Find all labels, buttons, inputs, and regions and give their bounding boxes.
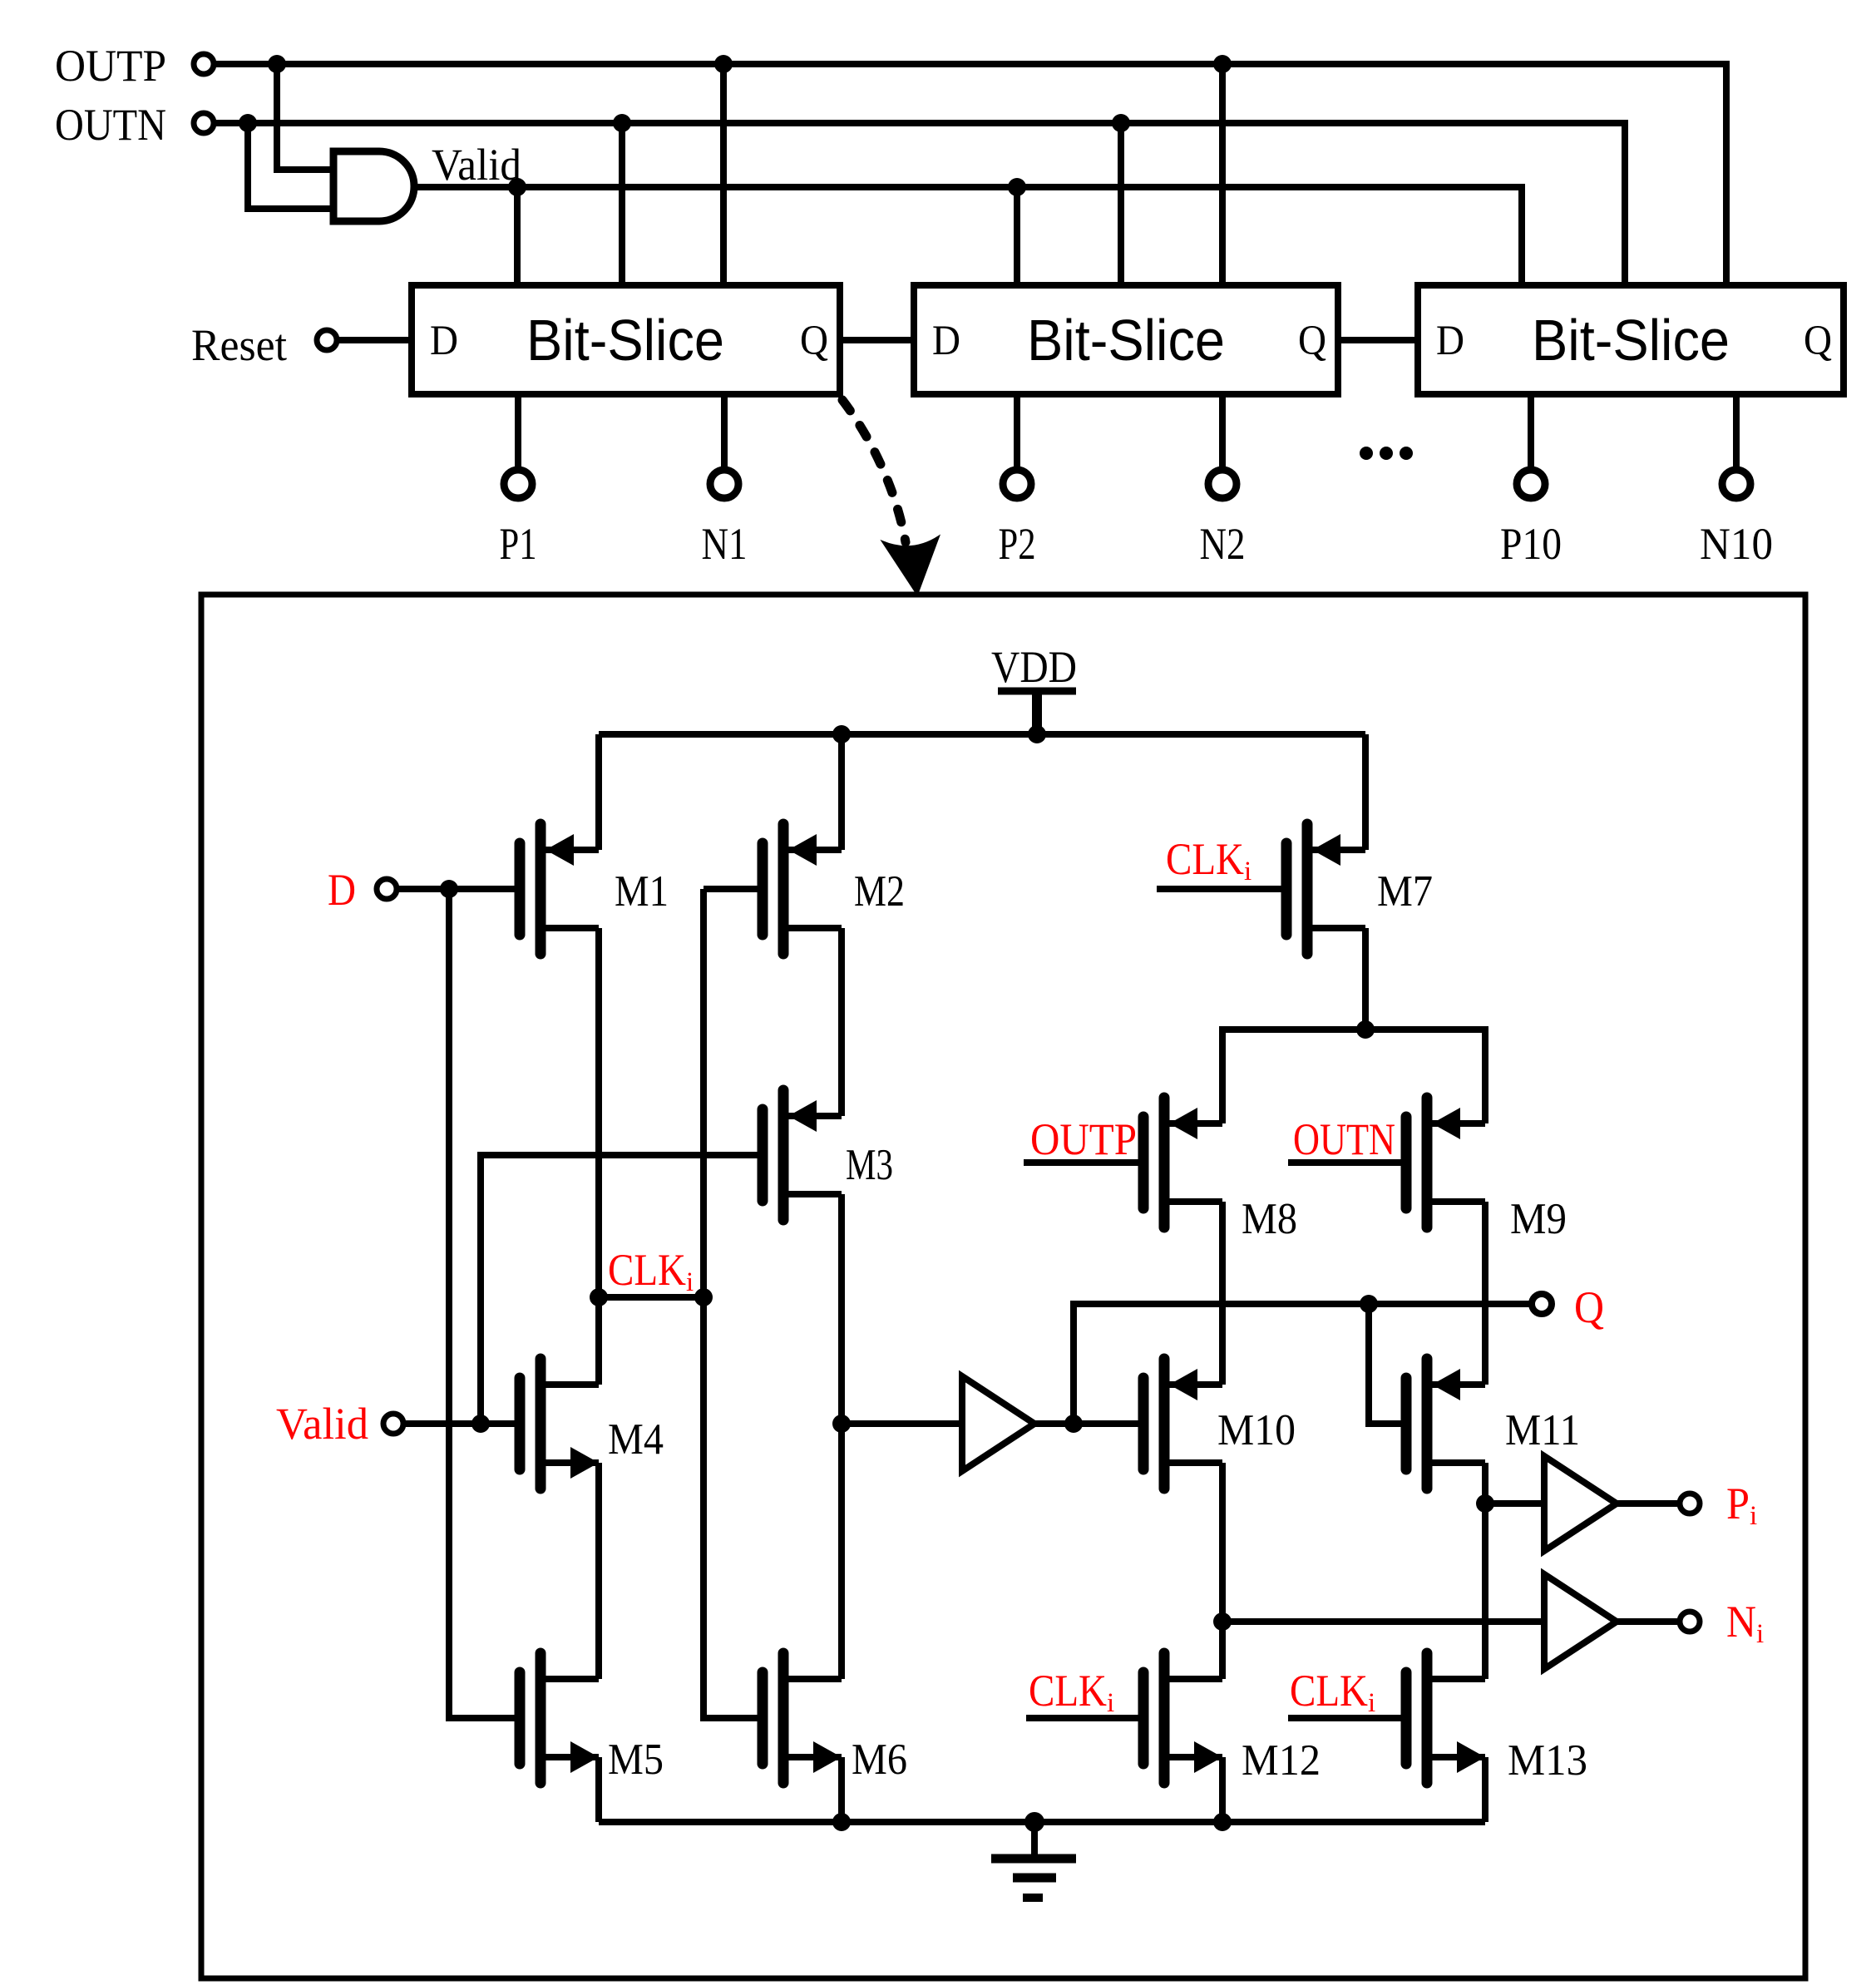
wire M5 source to ground (595, 1757, 602, 1822)
wire OUTN bus (215, 123, 1625, 285)
transistor M2 (763, 824, 842, 954)
svg-text:Ni: Ni (1726, 1597, 1764, 1649)
transistor M10 (1143, 1359, 1222, 1489)
wire M9 drain to M11 (1482, 1202, 1488, 1385)
transistor M8 (1143, 1098, 1222, 1227)
svg-text:CLKi: CLKi (1029, 1666, 1114, 1718)
junction buffer1 output (1064, 1415, 1083, 1433)
svg-text:CLKi: CLKi (1290, 1666, 1375, 1718)
svg-text:Valid: Valid (432, 140, 521, 190)
svg-text:Q: Q (1804, 318, 1832, 364)
junction gnd-sym (1024, 1812, 1044, 1832)
svg-text:CLKi: CLKi (608, 1245, 694, 1297)
wire M1 drain down (595, 928, 602, 1385)
wire slice2 Q to slice3 D (1338, 337, 1418, 343)
terminal P2 (1003, 470, 1031, 498)
wire Ni tap (1222, 1618, 1544, 1625)
svg-text:OUTP: OUTP (55, 41, 166, 91)
svg-text:M4: M4 (608, 1415, 664, 1464)
wire Valid drop slice2 (1014, 187, 1020, 285)
svg-text:M12: M12 (1242, 1736, 1321, 1785)
svg-text:Valid: Valid (276, 1399, 368, 1449)
svg-text:P1: P1 (500, 519, 537, 569)
wire Pi tap (1485, 1500, 1544, 1507)
svg-text:D: D (430, 318, 458, 364)
junction CLKi-M2M6 (694, 1288, 713, 1306)
junction VDD-stub (1028, 725, 1046, 743)
wire M12 source to ground (1219, 1757, 1226, 1822)
wire P10 stub (1528, 394, 1534, 467)
wire CLKi gate lead M12 (1026, 1715, 1143, 1721)
junction D (440, 880, 458, 898)
wire M10 source down (1219, 1463, 1226, 1679)
junction M7 node (1356, 1020, 1375, 1039)
wire CLKi gate lead M13 (1288, 1715, 1406, 1721)
dashed zoom arrow (842, 400, 906, 542)
wire CLKi gate lead M7 (1157, 886, 1286, 892)
svg-text:M2: M2 (854, 867, 905, 916)
svg-text:M5: M5 (608, 1736, 664, 1784)
svg-text:N1: N1 (702, 519, 748, 569)
svg-text:M6: M6 (852, 1736, 907, 1784)
wire OUTP bus (215, 64, 1726, 285)
svg-text:Bit-Slice: Bit-Slice (526, 308, 724, 373)
wire OUTN drop slice2 (1118, 123, 1124, 285)
wire M2 gate lead (703, 886, 763, 892)
terminal N2 (1208, 470, 1237, 498)
junction OUTP-slice1 (714, 55, 733, 73)
transistor M11 (1406, 1359, 1485, 1489)
terminal OUTN (194, 113, 214, 133)
svg-text:D: D (932, 318, 960, 364)
wire CLKi vertical M2-M6 (703, 889, 763, 1718)
ground symbol (991, 1822, 1076, 1898)
VDD rail symbol (998, 688, 1076, 695)
buffer U4 (1544, 1574, 1617, 1669)
svg-text:D: D (328, 865, 356, 915)
junction VDD-M2 (832, 725, 851, 743)
wire OUTN gate lead (1288, 1159, 1406, 1166)
wire D down to M5 gate (449, 889, 520, 1718)
transistor M9 (1406, 1098, 1485, 1227)
transistor M7 (1286, 824, 1365, 954)
junction Valid-slice2 (1008, 178, 1026, 196)
wire Q to M11 gate (1369, 1304, 1406, 1424)
wire N2 stub (1219, 394, 1226, 467)
wire Reset to slice1 D (338, 337, 412, 343)
wire OUTP to AND input (277, 64, 333, 170)
junction OUTN-slice2 (1112, 114, 1130, 132)
wire Valid drop slice1 (514, 187, 521, 285)
block Bit-Slice 1 (412, 285, 840, 394)
wire N1 stub (721, 394, 728, 467)
wire VDD stub (1032, 691, 1042, 734)
wire M7 source up (1362, 734, 1369, 850)
svg-text:VDD: VDD (991, 642, 1077, 692)
junction CLKi-M1M4 (590, 1288, 608, 1306)
svg-text:Q: Q (1574, 1282, 1604, 1332)
terminal N10 (1722, 470, 1750, 498)
wire M3 gate lead (481, 1155, 763, 1424)
wire M2 source up (838, 734, 845, 850)
terminal P10 (1517, 470, 1545, 498)
terminal OUTP (194, 54, 214, 74)
transistor M3 (763, 1090, 842, 1220)
svg-text:Pi: Pi (1726, 1479, 1757, 1531)
wire Ni out (1617, 1618, 1678, 1625)
svg-text:M9: M9 (1510, 1195, 1567, 1243)
dashed zoom arrowhead (882, 536, 939, 595)
svg-text:M8: M8 (1242, 1195, 1297, 1243)
junction buffer1 input (832, 1415, 851, 1433)
terminal Ni (1680, 1612, 1700, 1632)
wire M6 source to ground (838, 1757, 845, 1822)
wire M7 drain down (1362, 928, 1369, 1030)
block Bit-Slice 3 (1418, 285, 1844, 394)
transistor M13 (1406, 1653, 1485, 1783)
terminal P1 (504, 470, 532, 498)
junction Q-M11gate (1360, 1295, 1378, 1313)
terminal Pi (1680, 1494, 1700, 1513)
wire OUTN to AND input (248, 123, 333, 209)
junction OUTP-AND (268, 55, 286, 73)
wire M3 drain down (838, 1194, 845, 1679)
wire M1 source up (595, 734, 602, 850)
svg-text:M10: M10 (1217, 1406, 1296, 1454)
transistor M12 (1143, 1653, 1222, 1783)
junction Valid-slice1 (508, 178, 526, 196)
terminal N1 (710, 470, 738, 498)
block Bit-Slice 2 (914, 285, 1338, 394)
wire buffer1 output (1034, 1420, 1143, 1427)
svg-text:OUTP: OUTP (1030, 1114, 1137, 1164)
ellipsis dots (1360, 447, 1373, 460)
bit-slice detail box (201, 595, 1805, 1978)
svg-text:P10: P10 (1500, 519, 1562, 569)
wire VDD rail (599, 731, 1365, 738)
svg-text:Bit-Slice: Bit-Slice (1027, 308, 1225, 373)
svg-text:M13: M13 (1508, 1736, 1587, 1785)
wire N10 stub (1733, 394, 1740, 467)
wire buffer1 input (842, 1420, 962, 1427)
buffer U2 (962, 1376, 1034, 1471)
wire M13 source to ground (1482, 1757, 1488, 1822)
junction gnd-M6 (832, 1813, 851, 1831)
wire M11 source down (1482, 1463, 1488, 1679)
svg-text:Reset: Reset (191, 320, 287, 370)
terminal D (377, 879, 397, 899)
wire M8 drain to M10 (1219, 1202, 1226, 1385)
wire Valid to M4 gate (404, 1420, 520, 1427)
wire M4 source to M5 drain (595, 1463, 602, 1679)
svg-text:M3: M3 (846, 1141, 893, 1189)
transistor M5 (520, 1653, 599, 1783)
wire D to M1 gate (397, 886, 520, 892)
wire P1 stub (515, 394, 521, 467)
svg-text:M1: M1 (615, 867, 669, 916)
wire ground rail (599, 1819, 1485, 1825)
wire M7 to M8 M9 (1222, 1030, 1485, 1123)
svg-text:Q: Q (1298, 318, 1326, 364)
junction Valid-M3 (471, 1415, 490, 1433)
svg-text:N10: N10 (1700, 519, 1773, 569)
wire OUTP drop slice2 (1219, 64, 1226, 285)
svg-text:OUTN: OUTN (1293, 1114, 1395, 1164)
junction OUTP-slice2 (1213, 55, 1232, 73)
terminal Reset (317, 330, 337, 350)
junction Pi tap (1476, 1494, 1494, 1513)
terminal Q (1532, 1294, 1552, 1314)
svg-text:D: D (1436, 318, 1464, 364)
svg-text:M11: M11 (1505, 1406, 1580, 1454)
wire OUTN drop slice1 (619, 123, 625, 285)
svg-text:CLKi: CLKi (1166, 834, 1251, 886)
svg-text:Q: Q (800, 318, 828, 364)
wire Pi out (1617, 1500, 1678, 1507)
junction OUTN-slice1 (613, 114, 631, 132)
buffer U3 (1544, 1456, 1617, 1551)
svg-text:Bit-Slice: Bit-Slice (1532, 308, 1730, 373)
svg-text:OUTN: OUTN (55, 100, 166, 150)
transistor M6 (763, 1653, 842, 1783)
junction gnd-M12 (1213, 1813, 1232, 1831)
wire Q net (1074, 1304, 1531, 1424)
junction Ni tap (1213, 1612, 1232, 1631)
transistor M4 (520, 1359, 599, 1489)
svg-text:P2: P2 (999, 519, 1036, 569)
wire M2 drain to M3 source (838, 928, 845, 1116)
wire slice1 Q to slice2 D (840, 337, 914, 343)
wire P2 stub (1014, 394, 1020, 467)
svg-text:M7: M7 (1377, 867, 1433, 916)
terminal Valid (383, 1414, 403, 1434)
wire CLKi net (599, 1294, 703, 1301)
transistor M1 (520, 824, 599, 954)
wire OUTP gate lead (1024, 1159, 1143, 1166)
svg-text:N2: N2 (1200, 519, 1246, 569)
AND gate U1 (333, 151, 414, 221)
wire OUTP drop slice1 (720, 64, 727, 285)
junction OUTN-AND (239, 114, 257, 132)
wire Valid bus (414, 187, 1522, 285)
